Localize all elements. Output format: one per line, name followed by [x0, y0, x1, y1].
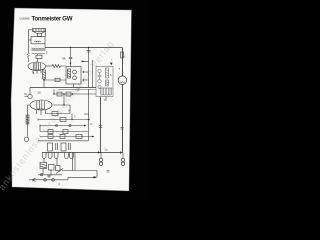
bus y140.8	[38, 140, 88, 142]
tube V2 pins	[37, 110, 46, 115]
svg-text:Oe: Oe	[24, 92, 28, 96]
bus y136.5	[40, 136, 92, 138]
heater loop U2	[48, 153, 52, 159]
mid rail second	[58, 88, 96, 90]
shield box IF2	[96, 67, 113, 97]
wire winding to box to tube	[37, 54, 39, 62]
wire x88.5 lower	[88, 89, 90, 141]
mains wire	[32, 177, 68, 180]
wire transformer right to rail	[44, 30, 47, 48]
switch pivots	[40, 174, 42, 176]
wire y80	[44, 79, 66, 81]
plug pins	[44, 179, 47, 182]
caps on x100	[99, 126, 102, 128]
wire x70 vertical	[69, 105, 71, 114]
label equals	[107, 171, 110, 173]
lamp 1	[99, 153, 102, 166]
bottom rail	[42, 152, 123, 154]
link to right	[68, 171, 97, 178]
box band 2	[66, 92, 71, 96]
grid stopper box	[36, 55, 42, 58]
wire tube V2 anode	[52, 104, 70, 106]
junction triangle	[82, 61, 85, 63]
box on y80	[55, 78, 60, 81]
resistor hatched left	[26, 115, 29, 124]
cap bars x88.5	[87, 51, 91, 52]
wire x64 link band	[63, 94, 65, 105]
wire left vertical	[27, 30, 29, 62]
mid rail	[30, 87, 96, 89]
hanging cap pair	[56, 143, 58, 150]
lamp 2	[121, 153, 124, 166]
wire top rail	[45, 47, 122, 49]
junction triangle top	[110, 63, 113, 66]
heater loop U1	[42, 153, 46, 159]
box on y119.5	[60, 118, 66, 122]
wire transformer left	[28, 39, 31, 41]
resistor zigzag	[52, 65, 66, 68]
wire x122 right rail	[122, 48, 124, 153]
svg-text:D: D	[91, 123, 93, 126]
wire tube V1 anode right	[46, 65, 52, 67]
caps on x122	[121, 127, 124, 129]
wire speaker top	[28, 29, 32, 31]
box on y113.5	[52, 112, 58, 116]
svg-text:Tonmeister GW: Tonmeister GW	[32, 16, 73, 23]
bus link vertical	[39, 126, 41, 132]
output transformer Tr	[31, 37, 46, 55]
resistor vertical R1	[43, 70, 46, 79]
hanging cap pair 2	[69, 143, 71, 150]
bus y125.5	[40, 124, 86, 126]
choke squiggle	[27, 53, 29, 58]
svg-text:10: 10	[38, 91, 42, 95]
wire x100 vertical	[100, 97, 102, 153]
heater loop U4	[65, 153, 69, 159]
svg-text:A: A	[68, 109, 70, 113]
bus y131.5	[40, 131, 88, 133]
link x72	[71, 114, 73, 120]
speaker LS	[33, 28, 46, 36]
capacitor C top	[69, 48, 72, 67]
resistor on right rail	[121, 52, 124, 58]
wire vertical x92.5	[92, 60, 94, 88]
coil lead	[105, 97, 107, 102]
svg-text:2µ: 2µ	[105, 148, 108, 152]
switch box	[56, 166, 61, 171]
right arrow	[94, 176, 98, 178]
mains arrow	[29, 178, 36, 181]
boxes y136.5	[48, 135, 53, 139]
junction dots band	[53, 93, 54, 94]
short bus y113.5	[46, 113, 70, 115]
wire R1	[43, 79, 45, 88]
page	[11, 8, 132, 191]
svg-text:7,: 7,	[74, 115, 76, 119]
ballast resistor	[40, 163, 47, 169]
box band 1	[57, 92, 62, 96]
vertical pair	[73, 153, 76, 171]
jack circle	[28, 94, 32, 98]
wire rail to ballast	[44, 159, 57, 166]
hanging cap 1	[48, 143, 53, 151]
junction dot y119.5	[88, 119, 90, 121]
junction dot	[43, 79, 44, 80]
output tube V1	[28, 62, 46, 71]
wire jack	[29, 88, 31, 95]
grid stubs	[81, 61, 89, 80]
svg-text:3,: 3,	[33, 71, 36, 75]
block stub to rail	[73, 84, 75, 88]
rail junction dots	[70, 47, 71, 48]
hanging cap 2	[61, 143, 66, 151]
rectifier tube V3	[118, 70, 127, 84]
boxes y131.5	[48, 130, 53, 134]
tube V2	[30, 100, 52, 110]
heater loop U5	[70, 153, 74, 159]
jack circle bottom left	[24, 137, 28, 141]
fuse box	[49, 165, 55, 171]
wire vertical x88.5	[88, 48, 90, 88]
wire band y94	[53, 89, 96, 94]
IF block	[66, 67, 81, 85]
junction arrows bottom	[98, 151, 122, 154]
switch lever	[56, 169, 63, 174]
contacts y125.5	[56, 125, 58, 127]
svg-text:Loewe: Loewe	[20, 17, 30, 21]
cluster links	[38, 169, 75, 176]
tube V1 pins	[33, 71, 41, 74]
bus y119.5	[38, 118, 90, 120]
heater loop U3	[54, 153, 58, 159]
wire left x27.5	[28, 105, 31, 137]
svg-text:34,: 34,	[62, 57, 66, 61]
